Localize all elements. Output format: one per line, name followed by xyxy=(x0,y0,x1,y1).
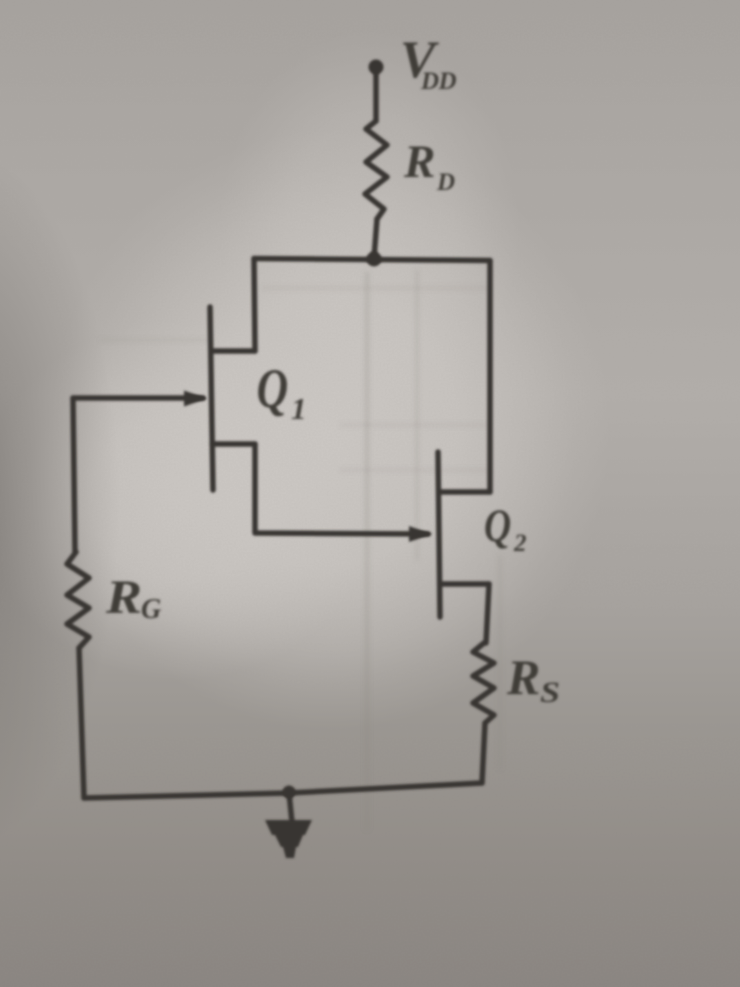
svg-text:Q: Q xyxy=(484,500,511,552)
svg-text:R: R xyxy=(506,649,540,705)
svg-text:1: 1 xyxy=(291,391,307,426)
svg-text:R: R xyxy=(105,571,142,624)
svg-text:D: D xyxy=(436,169,455,196)
svg-text:DD: DD xyxy=(420,68,457,95)
svg-text:S: S xyxy=(540,676,560,709)
svg-text:G: G xyxy=(141,594,161,625)
svg-text:Q: Q xyxy=(257,357,289,419)
svg-text:R: R xyxy=(403,136,435,188)
svg-text:2: 2 xyxy=(513,530,527,557)
